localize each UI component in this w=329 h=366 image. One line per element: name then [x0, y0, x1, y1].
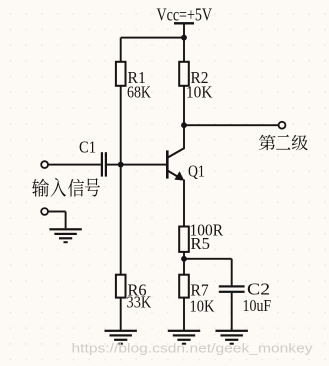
svg-text:https://blog.csdn.net/geek_mon: https://blog.csdn.net/geek_monkey: [72, 342, 314, 356]
svg-text:10K: 10K: [190, 297, 215, 316]
wire C1 to base: [107, 164, 167, 166]
capacitor C1: [101, 152, 103, 176]
ground input reference: [49, 228, 81, 230]
wire top rail horizontal: [121, 37, 184, 39]
Q1 emitter diagonal with arrow: [168, 171, 181, 179]
label second stage: [259, 135, 308, 151]
wire input to C1: [48, 164, 101, 166]
junction emitter node: [181, 256, 187, 262]
wire collector vertical: [183, 125, 185, 149]
wire Vcc node down to R2: [183, 38, 185, 62]
resistor R2: [179, 62, 189, 86]
wire R7 to ground: [183, 298, 185, 331]
junction collector node: [181, 122, 187, 128]
resistor R1: [116, 62, 126, 86]
wire C2 to ground: [231, 293, 233, 331]
terminal output: [279, 122, 286, 129]
wire emitter node to C2: [184, 258, 232, 260]
resistor R6: [116, 275, 126, 298]
ground under R6: [105, 330, 137, 332]
terminal input signal: [41, 161, 48, 168]
wire R1 to base node: [120, 86, 122, 165]
transistor Q1 base bar: [166, 150, 169, 178]
svg-text:Q1: Q1: [188, 161, 205, 180]
wire Vcc bar to top rail: [183, 23, 185, 37]
wire R5 to emitter node: [183, 252, 185, 259]
junction base node: [118, 162, 124, 168]
resistor R5: [179, 227, 189, 252]
wire base node down to R6: [120, 165, 122, 275]
Q1 collector diagonal: [168, 148, 184, 157]
svg-text:33K: 33K: [127, 293, 152, 312]
svg-text:10K: 10K: [186, 83, 212, 102]
ground under R7: [168, 330, 200, 332]
wire lower terminal to ground: [48, 211, 66, 213]
svg-text:68K: 68K: [127, 83, 151, 102]
resistor R7: [179, 275, 189, 298]
Vcc power bar symbol: [174, 22, 194, 24]
label input signal: [32, 178, 100, 197]
junction Vcc node: [181, 35, 187, 41]
ground under C2: [216, 330, 248, 332]
wire emitter vertical: [183, 180, 185, 227]
wire emitter node to R7: [183, 259, 185, 275]
wire output to second stage: [184, 124, 279, 126]
svg-text:C1: C1: [79, 138, 96, 157]
svg-text:10uF: 10uF: [243, 296, 272, 315]
capacitor C2: [219, 285, 245, 287]
terminal input ground side: [41, 208, 48, 215]
svg-text:Vcc=+5V: Vcc=+5V: [157, 5, 213, 25]
wire top rail down to R1: [120, 38, 122, 62]
wire R2 to collector node: [183, 86, 185, 125]
wire R6 to ground: [120, 298, 122, 331]
svg-text:R5: R5: [191, 234, 210, 253]
